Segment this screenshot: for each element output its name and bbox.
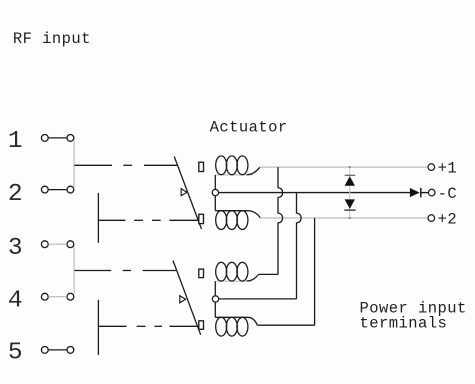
svg-text:4: 4: [8, 287, 23, 314]
svg-text:1: 1: [8, 128, 23, 155]
svg-text:+2: +2: [438, 211, 458, 229]
svg-text:Actuator: Actuator: [210, 118, 288, 136]
svg-text:-C: -C: [438, 185, 458, 203]
svg-text:5: 5: [8, 339, 23, 366]
svg-text:2: 2: [8, 181, 23, 208]
svg-text:terminals: terminals: [360, 314, 448, 332]
svg-text:RF input: RF input: [13, 30, 91, 48]
svg-text:+1: +1: [438, 159, 458, 177]
svg-text:3: 3: [8, 235, 23, 262]
